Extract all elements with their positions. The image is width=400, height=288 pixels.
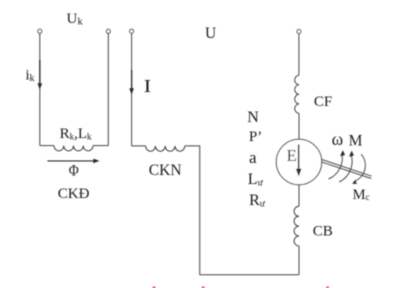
svg-text:I: I (144, 76, 152, 96)
svg-text:Φ: Φ (69, 163, 79, 180)
svg-text:U: U (205, 25, 216, 42)
svg-text:Uk: Uk (67, 11, 84, 27)
svg-text:CF: CF (314, 94, 332, 110)
svg-text:ω: ω (332, 129, 344, 149)
svg-text:CKN: CKN (149, 162, 182, 179)
svg-text:Rư: Rư (249, 192, 266, 210)
svg-text:ik: ik (26, 67, 35, 84)
svg-text:Lư: Lư (248, 171, 264, 189)
svg-text:CKĐ: CKĐ (58, 186, 90, 202)
svg-text:a: a (249, 148, 257, 167)
svg-text:P’: P’ (249, 129, 262, 145)
svg-text:E: E (287, 146, 297, 165)
svg-text:N: N (247, 109, 259, 126)
svg-text:Mc: Mc (353, 187, 370, 203)
svg-text:Rk,Lk: Rk,Lk (60, 126, 92, 142)
svg-text:M: M (349, 133, 363, 150)
svg-text:CB: CB (313, 224, 333, 240)
